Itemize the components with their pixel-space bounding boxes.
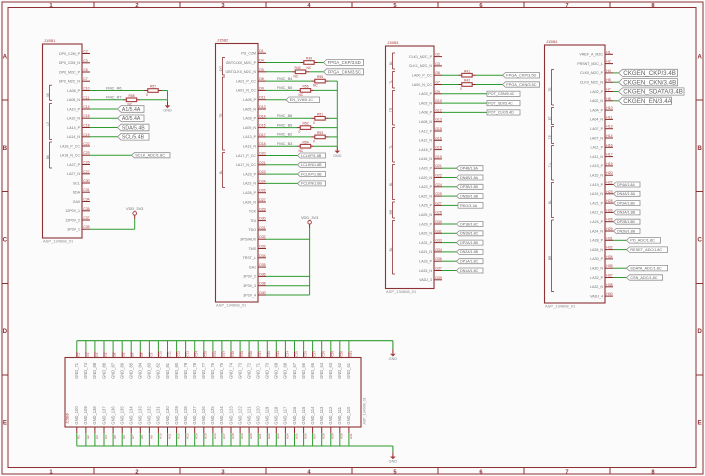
svg-text:H32: H32 (606, 246, 612, 250)
svg-text:G16: G16 (435, 136, 442, 140)
svg-text:LA31_N: LA31_N (419, 250, 432, 254)
pin C30 SCL (73, 179, 90, 185)
svg-text:LA22_N: LA22_N (419, 194, 432, 198)
svg-text:R39: R39 (306, 57, 312, 61)
svg-text:GND_114: GND_114 (310, 406, 315, 425)
svg-text:C35: C35 (83, 207, 89, 211)
wire (314, 127, 337, 129)
svg-text:GND: GND (389, 460, 398, 464)
svg-text:H9: H9 (149, 435, 153, 439)
svg-text:TE: TE (548, 135, 552, 139)
net SDA/5.4B (90, 124, 149, 131)
svg-text:LA30_N: LA30_N (590, 267, 603, 271)
wire (90, 228, 135, 230)
svg-text:GND_126: GND_126 (201, 406, 206, 425)
net flag FPGA_CKN/3.5C (324, 69, 364, 75)
pin top C27 GND_65 (310, 341, 317, 379)
svg-text:GND_134: GND_134 (129, 406, 134, 425)
net DP4A/1.8A (613, 182, 640, 187)
svg-text:LA16_P: LA16_P (419, 148, 432, 152)
net DP1A/1.8C (442, 259, 483, 264)
svg-text:LA32_P: LA32_P (590, 276, 603, 280)
net DP1B/1.8C (442, 222, 483, 227)
svg-text:D12: D12 (259, 105, 265, 109)
svg-text:TE: TE (548, 87, 552, 91)
wire (442, 223, 457, 225)
svg-text:H25: H25 (606, 199, 612, 203)
pin D24 LA23_N (243, 179, 266, 185)
svg-text:GND_76: GND_76 (210, 362, 215, 379)
svg-text:G13: G13 (435, 118, 442, 122)
svg-text:C3: C3 (83, 59, 88, 63)
svg-text:D23: D23 (259, 170, 265, 174)
wire (442, 167, 457, 169)
wire (442, 242, 457, 244)
pin H10 LA04_P (590, 106, 613, 112)
wire (266, 117, 312, 119)
svg-text:H2: H2 (606, 60, 611, 64)
pin D11 LA05_P (243, 96, 266, 102)
svg-text:ASP_134608_01: ASP_134608_01 (216, 303, 247, 308)
svg-text:LA00_P_CC: LA00_P_CC (412, 74, 432, 78)
pin top C8 GND_84 (138, 341, 145, 379)
svg-text:LA21_N: LA21_N (590, 211, 603, 215)
svg-text:0: 0 (146, 93, 148, 97)
svg-text:0: 0 (299, 130, 301, 134)
pin C37 12P0V_2 (65, 216, 90, 222)
svg-text:R42: R42 (464, 79, 470, 83)
pin D12 LA05_N (243, 105, 266, 111)
pin bottom H17 GND_124 (219, 406, 226, 446)
net FCLKN/1.6B (266, 181, 326, 186)
bank bracket 06 (46, 85, 52, 100)
pin bottom H2 GND_109 (83, 406, 90, 446)
svg-text:D: D (3, 328, 8, 335)
wire (442, 111, 487, 113)
net SCLK_ADC/1.8C (90, 153, 170, 158)
net FMC_B2 (266, 132, 312, 137)
resistor R54 (297, 140, 314, 153)
pin H26 LA21_N (590, 208, 613, 214)
bank bracket BR (548, 220, 554, 292)
svg-text:LA27_N: LA27_N (67, 172, 80, 176)
svg-text:LA09_P: LA09_P (243, 117, 256, 121)
pin top C18 GND_74 (228, 341, 235, 379)
svg-text:2: 2 (135, 3, 138, 9)
pin G18 LA16_P (419, 146, 442, 152)
pin top C9 GND_83 (147, 341, 154, 379)
bank bracket TR (389, 91, 395, 126)
svg-text:C15: C15 (204, 351, 208, 357)
pin bottom H18 GND_123 (228, 406, 235, 446)
net FMC_R7 (90, 95, 123, 100)
pin G2 CLK1_M2C_P (409, 53, 442, 59)
svg-text:BR: BR (548, 255, 552, 260)
svg-text:D30: D30 (259, 217, 265, 221)
svg-text:GND_62: GND_62 (337, 362, 342, 379)
svg-text:H29: H29 (606, 227, 612, 231)
svg-text:G3: G3 (435, 62, 440, 66)
svg-text:H3: H3 (95, 435, 99, 439)
pin D34 TRST_L (243, 254, 266, 260)
svg-text:LA25_P: LA25_P (419, 204, 432, 208)
pin D29 TCK (249, 207, 266, 213)
svg-text:TRST_L: TRST_L (243, 256, 256, 260)
svg-text:H20: H20 (249, 433, 253, 439)
net CKGEN_EN/3.4A (613, 97, 673, 105)
svg-text:C28: C28 (322, 351, 326, 357)
svg-text:C6: C6 (122, 352, 126, 356)
svg-text:C22: C22 (267, 351, 271, 357)
wire (266, 173, 298, 175)
wire (134, 218, 136, 220)
svg-text:SCL/5.4B: SCL/5.4B (122, 135, 145, 141)
svg-text:FMC_B8: FMC_B8 (277, 113, 292, 118)
net flag FPGA_CKP/3.5D (324, 60, 364, 66)
svg-text:GND_136: GND_136 (110, 406, 115, 425)
svg-text:H16: H16 (606, 143, 612, 147)
wire (612, 202, 615, 204)
svg-text:LA20_P: LA20_P (419, 167, 432, 171)
svg-text:GND_83: GND_83 (147, 362, 152, 379)
net POT_CLK/5.4D (442, 110, 520, 115)
pin G9 LA03_P (419, 90, 442, 96)
svg-text:FMC_B2: FMC_B2 (277, 132, 292, 137)
svg-text:GND_100: GND_100 (74, 406, 79, 425)
svg-text:DP0_M2C_N: DP0_M2C_N (59, 80, 81, 84)
svg-text:R52: R52 (303, 122, 309, 126)
wire (167, 100, 169, 101)
pin bottom H29 GND_112 (328, 406, 335, 446)
wire (612, 193, 615, 195)
svg-text:3P3V_4: 3P3V_4 (243, 293, 256, 297)
svg-text:H4: H4 (606, 69, 611, 73)
svg-text:H14: H14 (606, 134, 612, 138)
wire (90, 90, 145, 92)
pin bottom H14 GND_127 (192, 406, 199, 446)
pin top C14 GND_78 (192, 341, 199, 379)
ground (163, 101, 172, 112)
svg-text:H7: H7 (131, 435, 135, 439)
pin D18 LA13_N (243, 142, 266, 148)
svg-text:D31: D31 (259, 226, 265, 230)
svg-text:R41: R41 (464, 69, 470, 73)
svg-text:C24: C24 (285, 351, 289, 357)
pin top C3 GND_89 (92, 341, 99, 379)
svg-text:BL: BL (389, 182, 393, 186)
wire (442, 102, 487, 104)
svg-text:VADJ_4: VADJ_4 (590, 294, 603, 298)
ground (389, 350, 398, 361)
svg-text:LA14_N: LA14_N (67, 135, 80, 139)
pin H40 VADJ_4 (590, 292, 613, 298)
svg-text:LA06_P: LA06_P (67, 89, 80, 93)
pin top C19 GND_73 (237, 341, 244, 379)
svg-text:LA11_P: LA11_P (590, 146, 603, 150)
svg-text:GND_71: GND_71 (74, 362, 79, 379)
pin H37 LA32_P (590, 274, 613, 280)
svg-text:U7: U7 (46, 121, 50, 125)
connector J15B4 (545, 39, 606, 308)
pin C27 LA27_N (67, 170, 90, 176)
svg-text:H20: H20 (606, 171, 612, 175)
svg-text:LA05_P: LA05_P (243, 98, 256, 102)
svg-text:D27: D27 (259, 198, 265, 202)
pin bottom H9 GND_132 (147, 406, 154, 446)
net A0/5.4A (90, 115, 144, 122)
svg-text:GND_120: GND_120 (256, 406, 261, 425)
svg-text:D9: D9 (259, 86, 264, 90)
svg-text:LA31_P: LA31_P (419, 241, 432, 245)
svg-text:T-L: T-L (548, 162, 552, 167)
svg-text:C23: C23 (276, 351, 280, 357)
wire (309, 228, 311, 295)
pin G37 LA33_N (419, 267, 442, 273)
pin G6 LA00_P_CC (412, 71, 442, 77)
svg-text:ASP_134608_01: ASP_134608_01 (363, 397, 367, 424)
pin bottom H31 GND_110 (346, 406, 353, 446)
wire (266, 285, 310, 287)
svg-text:CLK0_M2C_P: CLK0_M2C_P (580, 71, 604, 75)
pin bottom H16 GND_125 (210, 406, 217, 446)
wire GND bottom bus (77, 445, 393, 447)
svg-text:GA1: GA1 (249, 265, 256, 269)
svg-text:BL: BL (389, 61, 393, 65)
svg-text:LA07_N: LA07_N (590, 136, 603, 140)
net DN4B/1.8A (442, 175, 483, 180)
svg-text:G12: G12 (435, 108, 442, 112)
svg-text:H11: H11 (606, 115, 612, 119)
svg-text:LA27_P: LA27_P (67, 163, 80, 167)
svg-text:C14: C14 (83, 105, 89, 109)
svg-text:GND_118: GND_118 (274, 406, 279, 425)
pin H28 LA24_P (590, 218, 613, 224)
svg-text:G15: G15 (435, 127, 442, 131)
svg-text:DN4A/1.8A: DN4A/1.8A (617, 192, 636, 196)
svg-text:TL: TL (389, 145, 393, 149)
svg-text:H10: H10 (606, 106, 612, 110)
svg-text:DN3B/1.8B: DN3B/1.8B (460, 194, 479, 198)
pin D26 LA26_P (243, 189, 266, 195)
svg-text:CLK1_M2C_P: CLK1_M2C_P (409, 55, 433, 59)
svg-text:CKGEN_CKP/3.4B: CKGEN_CKP/3.4B (623, 70, 676, 77)
svg-text:C13: C13 (186, 351, 190, 357)
svg-text:G7: G7 (435, 81, 440, 85)
svg-text:D34: D34 (259, 254, 265, 258)
pin D15 LA09_N (243, 124, 266, 130)
svg-text:C1: C1 (77, 352, 81, 356)
pin G15 LA12_P (419, 127, 442, 133)
svg-text:BL: BL (389, 247, 393, 251)
svg-text:G33: G33 (435, 239, 442, 243)
pin G21 LA20_P (419, 164, 442, 170)
svg-text:GND_112: GND_112 (328, 406, 333, 425)
net RESET_ADC/1.8C (613, 247, 668, 253)
resistor R39 (301, 57, 318, 65)
pin D35 GA1 (249, 263, 266, 269)
svg-text:H34: H34 (606, 255, 612, 259)
pin G33 LA31_P (419, 239, 442, 245)
svg-text:G37: G37 (435, 267, 442, 271)
pin D1 PG_C2M (241, 49, 266, 55)
svg-text:H14: H14 (195, 433, 199, 439)
svg-text:ASP_134608_01: ASP_134608_01 (545, 304, 576, 309)
svg-text:G22: G22 (435, 174, 442, 178)
pin H35 LA30_N (590, 264, 613, 270)
pin H11 LA04_N (590, 115, 613, 121)
net FMC_B4 (266, 76, 312, 81)
pin H31 LA28_P (590, 236, 613, 242)
svg-text:GND_116: GND_116 (292, 406, 297, 425)
svg-text:VADJ_3: VADJ_3 (419, 278, 432, 282)
svg-text:G27: G27 (435, 201, 442, 205)
svg-text:CLK1_M2C_N: CLK1_M2C_N (409, 64, 433, 68)
svg-text:GND: GND (163, 109, 172, 113)
svg-text:G6: G6 (435, 71, 440, 75)
pin C23 LA18_N_CC (60, 151, 90, 157)
svg-text:C19: C19 (240, 351, 244, 357)
pin top C22 GND_70 (265, 341, 272, 379)
svg-text:DP4A/1.8A: DP4A/1.8A (617, 183, 635, 187)
pin top C12 GND_80 (174, 341, 181, 379)
wire (266, 294, 310, 296)
bank bracket TR (219, 77, 225, 150)
pin G12 LA08_P (419, 108, 442, 114)
svg-text:12P0V_2: 12P0V_2 (65, 218, 80, 222)
wire (90, 99, 123, 101)
svg-text:LA19_P: LA19_P (590, 183, 603, 187)
svg-text:R54: R54 (303, 140, 309, 144)
wire (613, 277, 627, 279)
svg-text:H30: H30 (340, 433, 344, 439)
svg-text:3P3VAUX: 3P3VAUX (240, 238, 257, 242)
svg-text:H16: H16 (213, 433, 217, 439)
connector J15B1 (43, 38, 83, 243)
pin G10 LA03_N (419, 99, 442, 105)
svg-text:GND_132: GND_132 (147, 406, 152, 425)
pin top C11 GND_81 (165, 341, 172, 379)
svg-text:D17: D17 (259, 133, 265, 137)
connector J15B6 (65, 358, 367, 428)
pin top C21 GND_71 (256, 341, 263, 379)
svg-text:TR: TR (219, 113, 223, 118)
svg-text:GND_129: GND_129 (174, 406, 179, 425)
net DN2A/1.8B (442, 249, 483, 254)
svg-text:C14: C14 (195, 351, 199, 357)
svg-text:G34: G34 (435, 248, 442, 252)
pin bottom H26 GND_115 (301, 406, 308, 446)
svg-text:GND_121: GND_121 (246, 406, 251, 425)
net FMC_B3 (266, 141, 297, 146)
wire (476, 84, 503, 86)
pin top C13 GND_79 (183, 341, 190, 379)
svg-text:TR: TR (389, 107, 393, 112)
svg-text:H37: H37 (606, 274, 612, 278)
svg-text:LA08_N: LA08_N (419, 120, 432, 124)
pin bottom H21 GND_120 (256, 406, 263, 446)
svg-text:C9: C9 (149, 352, 153, 356)
svg-text:D15: D15 (259, 124, 265, 128)
wire (266, 71, 292, 73)
svg-text:0: 0 (313, 121, 315, 125)
wire (612, 221, 615, 223)
svg-text:LA02_N: LA02_N (590, 99, 603, 103)
bank bracket T-L (548, 146, 554, 181)
pin top C24 GND_68 (283, 341, 290, 379)
pin top C2 GND_74 (83, 341, 90, 379)
svg-text:DP0_M2C_P: DP0_M2C_P (59, 70, 81, 74)
pin G28 LA25_N (419, 211, 442, 217)
svg-text:H23: H23 (276, 433, 280, 439)
svg-text:H19: H19 (240, 433, 244, 439)
svg-text:C31: C31 (83, 188, 89, 192)
wire (90, 117, 118, 119)
pin C2 DP0_C2M_P (59, 50, 90, 56)
net CSN_ADC/1.8C (613, 275, 663, 280)
pin C14 LA10_P (67, 105, 90, 111)
svg-text:DP1A/1.8C: DP1A/1.8C (460, 260, 478, 264)
wire (442, 260, 457, 262)
svg-text:C12: C12 (177, 351, 181, 357)
wire (613, 72, 619, 74)
svg-text:LA15_N: LA15_N (590, 174, 603, 178)
pin top C15 GND_77 (201, 341, 208, 379)
wire (314, 89, 337, 91)
net DP2A/1.8B (442, 240, 483, 245)
svg-text:GND_85: GND_85 (129, 362, 134, 379)
pin D27 LA26_N (243, 198, 266, 204)
wire (613, 239, 627, 241)
wire (314, 145, 337, 147)
pin G3 CLK1_M2C_N (409, 62, 442, 68)
pin G34 LA31_N (419, 248, 442, 254)
svg-text:LA14_P: LA14_P (67, 126, 80, 130)
net TRIG/3.3A (442, 203, 483, 209)
pin top C5 GND_87 (110, 341, 117, 379)
wire (90, 154, 132, 156)
resistor R56 (297, 85, 314, 98)
svg-text:C2: C2 (86, 352, 90, 356)
pin bottom H12 GND_129 (174, 406, 181, 446)
pin bottom H7 GND_134 (129, 406, 136, 446)
svg-text:GND_125: GND_125 (210, 406, 215, 425)
svg-text:GBTCLK0_M2C_N: GBTCLK0_M2C_N (225, 70, 256, 74)
svg-text:H28: H28 (606, 218, 612, 222)
pin D8 LA01_P_CC (236, 77, 266, 83)
svg-text:FMC_B3: FMC_B3 (277, 141, 292, 146)
wire (266, 89, 297, 91)
svg-text:LA03_N: LA03_N (419, 101, 432, 105)
svg-text:GA0: GA0 (73, 200, 80, 204)
wire (309, 227, 311, 229)
svg-text:A: A (697, 54, 702, 61)
svg-text:LA15_P: LA15_P (590, 164, 603, 168)
svg-text:C30: C30 (83, 179, 89, 183)
svg-text:H38: H38 (606, 283, 612, 287)
pin H23 LA19_N (590, 190, 613, 196)
pin H34 LA30_P (590, 255, 613, 261)
svg-text:DP2B/1.8B: DP2B/1.8B (617, 220, 635, 224)
net DN4A/1.8A (613, 191, 640, 196)
wire (134, 219, 136, 229)
svg-text:C26: C26 (303, 351, 307, 357)
resistor R55 (312, 75, 329, 88)
svg-text:H5: H5 (606, 78, 611, 82)
pin H16 LA11_P (590, 143, 613, 149)
svg-text:DP4B/1.8A: DP4B/1.8A (460, 167, 478, 171)
pin top C29 GND_63 (328, 341, 335, 379)
svg-text:LA07_P: LA07_P (590, 127, 603, 131)
